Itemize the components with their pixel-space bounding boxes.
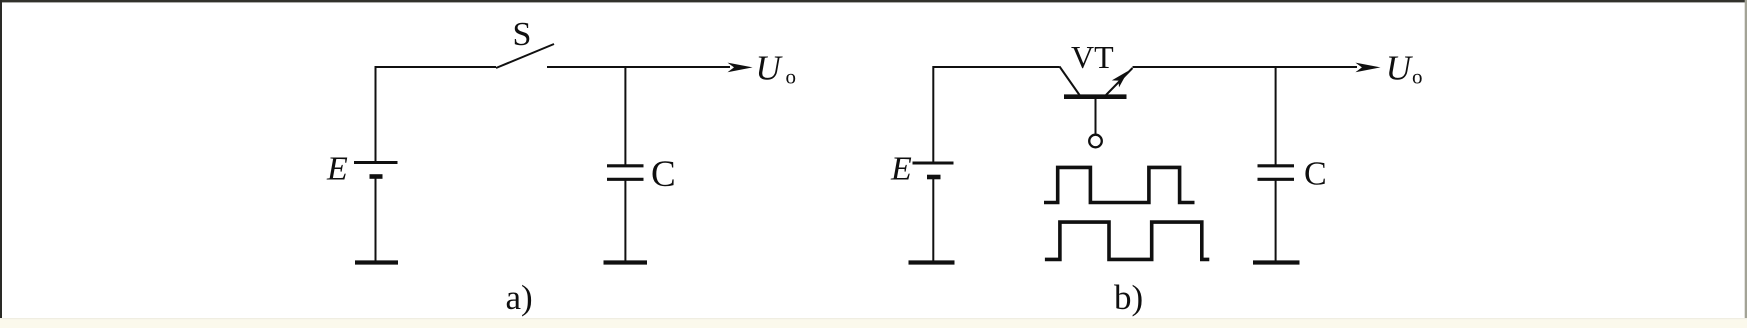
svg-text:VT: VT (1071, 39, 1114, 75)
svg-text:E: E (326, 151, 348, 188)
svg-text:o: o (1412, 65, 1423, 89)
svg-text:a): a) (506, 278, 533, 317)
svg-text:U: U (756, 49, 784, 88)
svg-text:C: C (651, 154, 676, 195)
svg-text:S: S (513, 16, 532, 53)
svg-text:U: U (1386, 49, 1414, 88)
svg-text:o: o (786, 65, 797, 89)
svg-text:b): b) (1114, 278, 1143, 317)
svg-text:C: C (1304, 156, 1327, 193)
svg-text:E: E (890, 151, 912, 188)
